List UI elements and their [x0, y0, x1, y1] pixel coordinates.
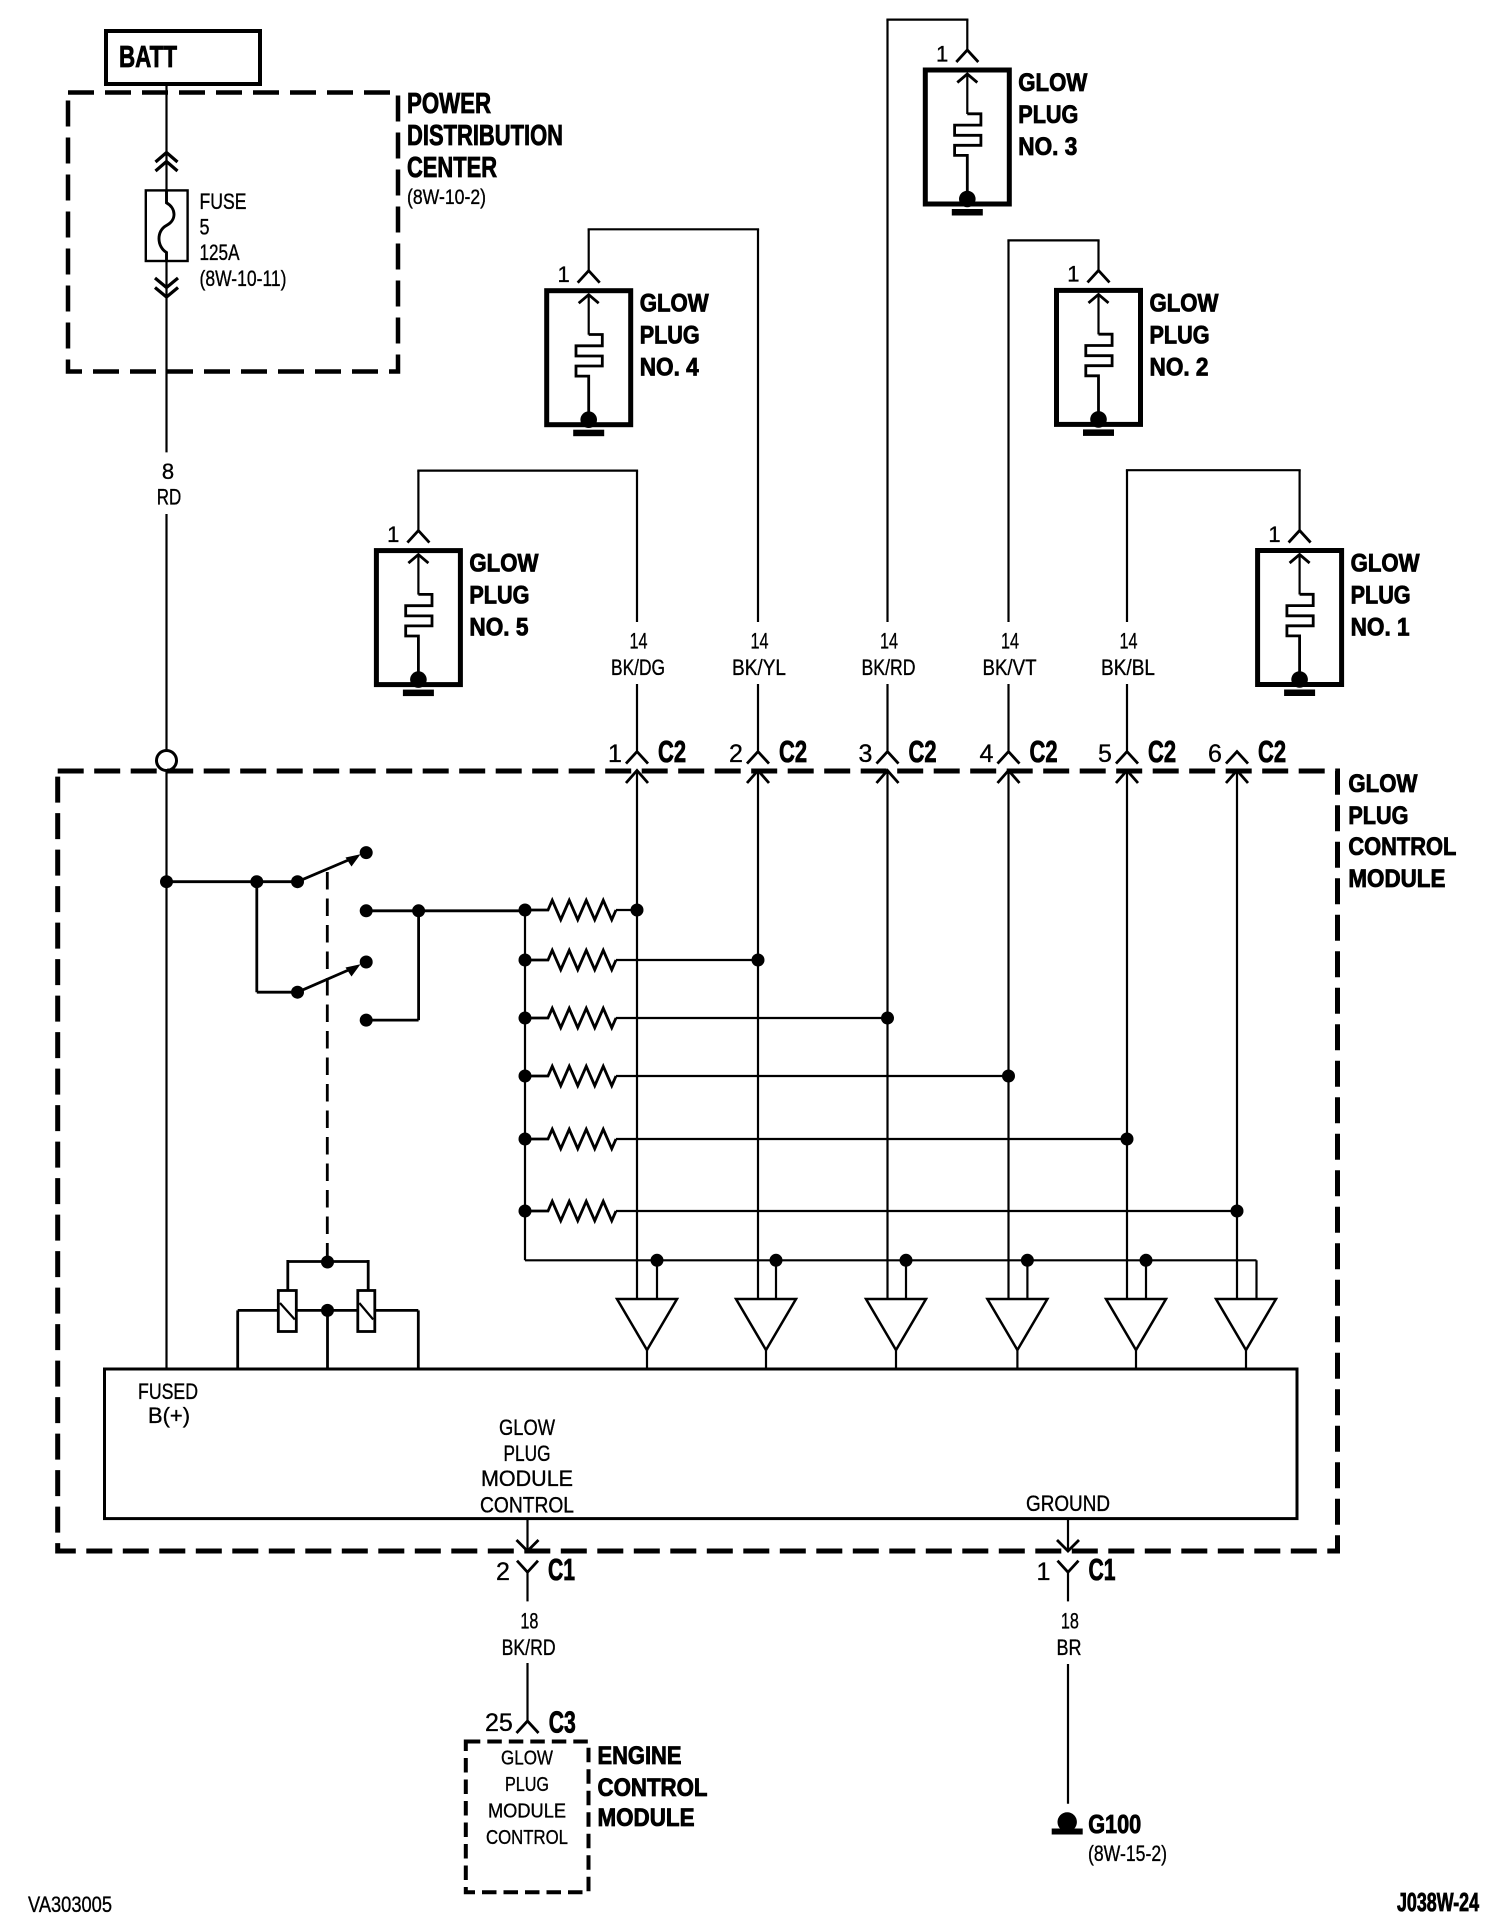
svg-text:B(+): B(+) — [148, 1403, 190, 1428]
resistor R2 bus dot — [519, 954, 532, 967]
svg-text:(8W-10-11): (8W-10-11) — [200, 266, 287, 291]
wire resistor R6 to column 6 — [616, 1210, 1237, 1212]
driver triangle 4 — [987, 1299, 1047, 1350]
wire BATT to fuse — [165, 84, 167, 190]
svg-text:BATT: BATT — [119, 39, 177, 74]
svg-text:1: 1 — [936, 41, 948, 66]
svg-text:CONTROL: CONTROL — [480, 1493, 574, 1518]
svg-text:(8W-10-2): (8W-10-2) — [407, 186, 486, 209]
svg-text:PLUG: PLUG — [1348, 802, 1408, 830]
svg-text:BK/RD: BK/RD — [502, 1635, 556, 1660]
resistor R1 bus dot — [519, 904, 532, 917]
svg-text:C2: C2 — [658, 734, 686, 769]
svg-text:NO. 3: NO. 3 — [1018, 133, 1077, 161]
wire resistor R5 to column 5 — [616, 1138, 1127, 1140]
relay bridge node — [321, 1256, 334, 1269]
inline connector double chevron below fuse — [155, 278, 178, 288]
driver triangle 1 — [617, 1299, 677, 1350]
relay coil K2 — [358, 1291, 375, 1332]
svg-text:2: 2 — [729, 740, 743, 768]
module inner block — [105, 1369, 1298, 1519]
node on feed wire — [160, 875, 173, 888]
wire BK/BL to C2 — [1126, 684, 1128, 751]
svg-text:CONTROL: CONTROL — [486, 1827, 568, 1849]
svg-text:1: 1 — [1037, 1558, 1051, 1586]
svg-text:DISTRIBUTION: DISTRIBUTION — [407, 120, 563, 152]
svg-text:1: 1 — [557, 262, 569, 287]
glow plug NO. 3 box and element — [925, 70, 1009, 204]
junction dot R6 column — [1231, 1205, 1244, 1218]
resistor R5 — [525, 1129, 616, 1148]
wire resistor R3 to column 3 — [616, 1017, 888, 1019]
wire glow plug NO. 3 to C2 pin — [966, 20, 968, 51]
resistor R3 bus dot — [519, 1012, 532, 1025]
svg-text:C2: C2 — [779, 734, 807, 769]
svg-text:PLUG: PLUG — [640, 322, 700, 350]
wire to switch S2 pole — [255, 882, 258, 993]
svg-text:FUSED: FUSED — [138, 1379, 198, 1404]
svg-text:PLUG: PLUG — [505, 1774, 549, 1796]
relay coil K1 — [278, 1291, 296, 1332]
connector C2 pin 2 — [747, 752, 769, 764]
svg-text:GLOW: GLOW — [1018, 69, 1087, 97]
svg-text:PLUG: PLUG — [1018, 101, 1078, 129]
switch S2 throw contact — [360, 956, 373, 969]
resistor R4 bus dot — [519, 1070, 532, 1083]
svg-text:(8W-15-2): (8W-15-2) — [1088, 1841, 1167, 1866]
resistor R2 — [525, 950, 616, 969]
connector C2 pin 5 — [1116, 752, 1138, 764]
fuse F5 element — [159, 190, 174, 261]
connector C2 pin 3 — [877, 752, 899, 764]
svg-text:GLOW: GLOW — [1351, 550, 1420, 578]
relay output wires — [238, 1309, 279, 1312]
resistor R6 bus dot — [519, 1205, 532, 1218]
svg-text:14: 14 — [1001, 629, 1019, 654]
driver triangle 5 — [1106, 1299, 1166, 1350]
wire glow plug NO. 2 to C2 pin — [1097, 240, 1099, 271]
svg-text:BR: BR — [1057, 1635, 1082, 1660]
driver triangle 3 — [866, 1299, 926, 1350]
svg-text:BK/VT: BK/VT — [983, 655, 1037, 680]
driver common bus — [525, 1259, 1257, 1261]
svg-text:18: 18 — [1061, 1609, 1079, 1634]
power distribution center dashed box — [68, 93, 398, 372]
svg-text:PLUG: PLUG — [469, 582, 529, 610]
switch pole dots row 1 — [250, 875, 263, 888]
wire resistor R1 to column 1 — [616, 909, 637, 911]
fuse F5 box — [146, 190, 188, 261]
wire glow plug NO. 1 to C2 pin — [1298, 470, 1300, 531]
wire BK/RD to C2 — [886, 684, 888, 751]
wire glow plug NO. 4 to C2 pin — [588, 229, 590, 271]
svg-text:GLOW: GLOW — [499, 1415, 555, 1440]
junction dot R4 column — [1002, 1070, 1015, 1083]
svg-text:6: 6 — [1208, 740, 1222, 768]
svg-text:GLOW: GLOW — [1348, 770, 1417, 798]
svg-text:FUSE: FUSE — [200, 189, 247, 214]
svg-text:BK/RD: BK/RD — [862, 655, 916, 680]
svg-text:CONTROL: CONTROL — [598, 1774, 708, 1802]
svg-text:GROUND: GROUND — [1026, 1491, 1110, 1516]
svg-text:RD: RD — [157, 485, 182, 510]
svg-text:14: 14 — [1120, 629, 1138, 654]
svg-text:C2: C2 — [1258, 734, 1286, 769]
resistor R4 — [525, 1066, 616, 1085]
junction dot on contact wire — [412, 904, 425, 917]
svg-text:PLUG: PLUG — [1150, 321, 1210, 349]
wire resistor R4 to column 4 — [616, 1075, 1009, 1077]
svg-text:2: 2 — [496, 1558, 510, 1586]
svg-text:C1: C1 — [1089, 1552, 1116, 1587]
svg-text:NO. 4: NO. 4 — [640, 354, 699, 382]
svg-text:5: 5 — [1098, 740, 1112, 768]
svg-text:MODULE: MODULE — [481, 1466, 573, 1491]
junction dot R2 column — [752, 954, 765, 967]
resistor R1 — [525, 900, 616, 919]
glow plug NO. 2 box and element — [1057, 290, 1141, 424]
svg-text:5: 5 — [200, 215, 210, 240]
svg-text:MODULE: MODULE — [598, 1804, 695, 1832]
glow plug NO. 4 box and element — [547, 291, 631, 425]
connector C1 pin 1 — [1067, 1519, 1069, 1551]
switch S1 throw contact — [360, 846, 373, 859]
connector C3 pin 25 — [517, 1721, 539, 1733]
svg-text:POWER: POWER — [407, 88, 491, 120]
wire BK/RD to C3 — [526, 1663, 528, 1720]
svg-text:PLUG: PLUG — [1351, 582, 1411, 610]
svg-text:C2: C2 — [909, 734, 937, 769]
engine control module dashed box — [466, 1742, 589, 1893]
svg-text:1: 1 — [608, 740, 622, 768]
svg-text:8: 8 — [162, 459, 174, 484]
connector C2 pin 4 — [998, 752, 1020, 764]
svg-text:C1: C1 — [548, 1552, 575, 1587]
driver triangle 2 — [736, 1299, 796, 1350]
junction dot R5 column — [1121, 1133, 1134, 1146]
wire BR to G100 — [1067, 1664, 1069, 1804]
relay center node — [321, 1304, 334, 1317]
glow plug control module dashed box — [58, 771, 1338, 1551]
svg-text:1: 1 — [1268, 522, 1280, 547]
svg-text:GLOW: GLOW — [640, 290, 709, 318]
svg-text:25: 25 — [485, 1709, 513, 1737]
svg-text:ENGINE: ENGINE — [598, 1742, 682, 1770]
svg-text:CENTER: CENTER — [407, 152, 497, 184]
svg-text:NO. 1: NO. 1 — [1351, 614, 1410, 642]
wire BK/DG to C2 — [636, 684, 638, 751]
wire node to switch poles — [167, 880, 298, 883]
relay actuate dashed link — [326, 872, 329, 1262]
svg-text:G100: G100 — [1088, 1809, 1141, 1839]
connector C2 pin 6 — [1226, 752, 1248, 764]
glow plug NO. 1 box and element — [1258, 551, 1342, 685]
svg-text:BK/YL: BK/YL — [732, 655, 786, 680]
svg-text:4: 4 — [980, 740, 994, 768]
svg-text:3: 3 — [859, 740, 873, 768]
wire resistor R2 to column 2 — [616, 959, 758, 961]
svg-text:VA303005: VA303005 — [28, 1892, 112, 1917]
svg-text:GLOW: GLOW — [1150, 289, 1219, 317]
svg-text:PLUG: PLUG — [504, 1441, 551, 1466]
svg-text:14: 14 — [880, 629, 898, 654]
wire contact to resistor bus — [366, 909, 525, 912]
resistor R5 bus dot — [519, 1133, 532, 1146]
svg-text:1: 1 — [387, 522, 399, 547]
driver triangle 6 — [1216, 1299, 1276, 1350]
svg-text:BK/BL: BK/BL — [1101, 655, 1155, 680]
svg-text:NO. 5: NO. 5 — [469, 614, 528, 642]
relay bridge wires — [288, 1260, 368, 1263]
battery feed box BATT — [106, 31, 260, 84]
ground G100 symbol — [1058, 1812, 1077, 1831]
svg-text:MODULE: MODULE — [1348, 865, 1445, 893]
contact dot row2 output — [360, 1014, 373, 1027]
switch S2 blade — [298, 969, 353, 993]
wire into module — [165, 770, 167, 1370]
svg-text:C3: C3 — [549, 1705, 576, 1740]
svg-text:18: 18 — [520, 1609, 538, 1634]
svg-text:GLOW: GLOW — [501, 1748, 553, 1770]
connector C2 pin 1 — [626, 752, 648, 764]
resistor R3 — [525, 1008, 616, 1027]
svg-text:1: 1 — [1067, 262, 1079, 287]
svg-text:MODULE: MODULE — [488, 1801, 566, 1823]
resistor R6 — [525, 1201, 616, 1220]
node circle at module boundary — [157, 751, 177, 771]
svg-text:C2: C2 — [1030, 734, 1058, 769]
connector C1 pin 2 — [526, 1519, 528, 1551]
svg-text:J038W-24: J038W-24 — [1397, 1887, 1479, 1917]
switch S2 pole dot — [291, 986, 304, 999]
wire fuse to label 8 RD — [165, 261, 167, 452]
wire BK/VT to C2 — [1007, 684, 1009, 751]
svg-text:125A: 125A — [200, 240, 240, 265]
svg-text:GLOW: GLOW — [469, 550, 538, 578]
svg-text:C2: C2 — [1148, 734, 1176, 769]
contact dot row1 output — [360, 904, 373, 917]
svg-text:CONTROL: CONTROL — [1348, 833, 1456, 861]
glow plug NO. 5 box and element — [376, 551, 460, 685]
svg-text:14: 14 — [630, 629, 648, 654]
wire BK/YL to C2 — [757, 684, 759, 751]
resistor bus vertical — [524, 910, 526, 1260]
svg-text:BK/DG: BK/DG — [611, 655, 665, 680]
wire RD to module — [165, 514, 167, 751]
inline connector double chevron above fuse — [156, 153, 178, 163]
wire lower contact loop — [366, 1019, 418, 1022]
svg-text:14: 14 — [751, 629, 769, 654]
svg-text:NO. 2: NO. 2 — [1150, 353, 1209, 381]
junction dot R1 column — [631, 904, 644, 917]
switch S1 blade — [298, 859, 353, 882]
junction dot R3 column — [881, 1012, 894, 1025]
wire glow plug NO. 5 to C2 pin — [417, 471, 419, 532]
